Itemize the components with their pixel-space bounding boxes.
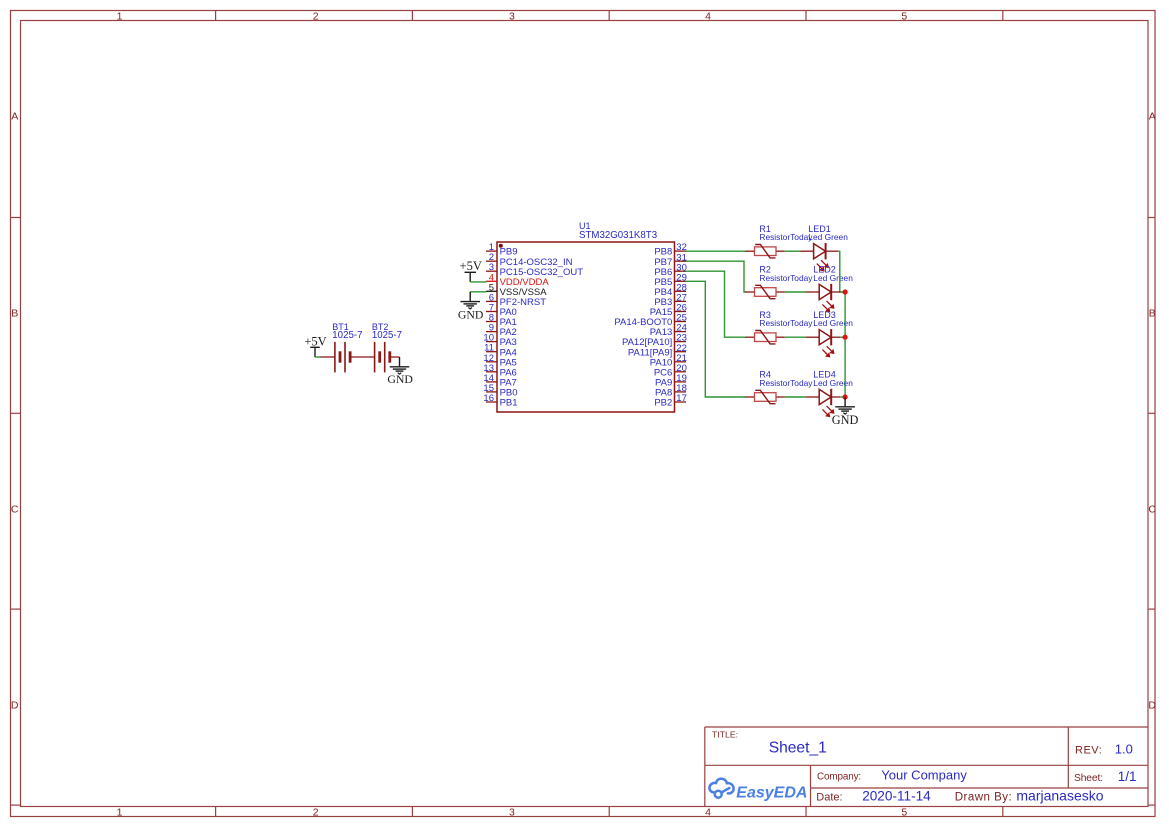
wire LED3 cathode to bus xyxy=(831,336,840,338)
svg-text:1: 1 xyxy=(117,11,123,23)
svg-text:+5V: +5V xyxy=(304,334,326,348)
pin 23 PA12[PA10] xyxy=(622,333,687,349)
pin 20 PC6 xyxy=(654,363,687,379)
pin 28 PB4 xyxy=(654,282,687,298)
wire PB6 to R3 xyxy=(686,271,746,337)
pin 10 PA3 xyxy=(483,333,516,349)
svg-text:B: B xyxy=(11,307,18,319)
pin 8 PA1 xyxy=(486,313,517,329)
svg-text:4: 4 xyxy=(705,807,711,819)
wire BT2 to ground xyxy=(390,356,400,358)
svg-text:D: D xyxy=(1148,699,1156,711)
svg-text:D: D xyxy=(11,699,19,711)
LED4 xyxy=(785,370,854,418)
power flag +5V at battery xyxy=(310,347,320,357)
svg-text:3: 3 xyxy=(509,11,515,23)
title block xyxy=(705,727,1148,807)
svg-text:1/1: 1/1 xyxy=(1118,769,1137,784)
svg-text:GND: GND xyxy=(458,307,484,321)
pin 30 PB6 xyxy=(654,262,687,278)
svg-text:4: 4 xyxy=(705,11,711,23)
pin 18 PA8 xyxy=(655,383,687,399)
svg-text:Sheet_1: Sheet_1 xyxy=(769,740,827,757)
pin 6 PF2-NRST xyxy=(486,292,546,308)
svg-text:GND: GND xyxy=(832,413,859,427)
resistor R3 xyxy=(745,310,813,344)
svg-text:GND: GND xyxy=(387,372,413,386)
svg-text:1: 1 xyxy=(117,807,123,819)
svg-text:5: 5 xyxy=(901,11,907,23)
pin 29 PB5 xyxy=(654,272,687,288)
svg-text:+5V: +5V xyxy=(460,259,482,273)
wire pin4 to +5V xyxy=(470,281,486,283)
svg-text:Led Green: Led Green xyxy=(813,378,853,388)
pin 24 PA13 xyxy=(650,323,687,339)
svg-text:Drawn By:: Drawn By: xyxy=(955,792,1013,804)
pin 3 PC15-OSC32_OUT xyxy=(486,262,583,278)
LED3 xyxy=(785,310,854,358)
wire PB8 to R1 xyxy=(686,250,746,252)
wire PB5 to R4 xyxy=(686,281,746,397)
svg-text:C: C xyxy=(1148,504,1156,516)
pin 4 VDD/VDDA xyxy=(486,272,549,288)
pin 14 PA7 xyxy=(483,373,516,389)
svg-text:5: 5 xyxy=(901,807,907,819)
pin 7 PA0 xyxy=(486,303,517,319)
wire PB7 to R2 xyxy=(686,261,746,292)
svg-text:17: 17 xyxy=(676,393,687,404)
ground at battery xyxy=(390,357,410,374)
svg-text:2: 2 xyxy=(313,11,319,23)
pin 21 PA10 xyxy=(650,353,687,369)
pin 32 PB8 xyxy=(654,242,687,258)
svg-text:ResistorToday: ResistorToday xyxy=(759,232,813,242)
ground at LED4 xyxy=(835,397,855,414)
junction node at LED3 cathode xyxy=(843,335,848,340)
svg-text:1025-7: 1025-7 xyxy=(332,330,362,341)
power flag +5V at chip pin 4 xyxy=(465,272,477,282)
svg-text:ResistorToday: ResistorToday xyxy=(759,273,813,283)
svg-text:ResistorToday: ResistorToday xyxy=(759,318,813,328)
svg-text:1.0: 1.0 xyxy=(1115,741,1133,756)
svg-text:1025-7: 1025-7 xyxy=(372,330,402,341)
svg-text:A: A xyxy=(1149,110,1156,122)
svg-text:Sheet:: Sheet: xyxy=(1074,773,1103,784)
op chip U1 STM32G031K8T3 xyxy=(497,242,675,412)
wire LED4 cathode to bus xyxy=(831,396,840,398)
svg-text:Led Green: Led Green xyxy=(813,318,853,328)
pin 12 PA5 xyxy=(483,353,516,369)
resistor R4 xyxy=(745,370,813,404)
LED2 xyxy=(785,265,854,313)
battery BT1 xyxy=(335,342,350,373)
pin 17 PB2 xyxy=(654,393,687,409)
wire LED1 cathode to bus xyxy=(826,250,839,252)
EasyEDA logo xyxy=(709,779,733,798)
pin 19 PA9 xyxy=(655,373,687,389)
svg-text:ResistorToday: ResistorToday xyxy=(759,378,813,388)
svg-text:TITLE:: TITLE: xyxy=(712,730,738,740)
svg-text:Led Green: Led Green xyxy=(808,232,848,242)
pin 5 VSS/VSSA xyxy=(486,282,547,298)
svg-text:REV:: REV: xyxy=(1075,744,1102,756)
svg-text:Date:: Date: xyxy=(816,792,842,804)
wire LED2 cathode to bus xyxy=(831,291,840,293)
pin 27 PB3 xyxy=(654,293,687,309)
pin 9 PA2 xyxy=(486,323,517,339)
pin 22 PA11[PA9] xyxy=(628,343,687,359)
svg-text:16: 16 xyxy=(483,393,494,404)
svg-text:Led Green: Led Green xyxy=(813,273,853,283)
svg-text:PB2: PB2 xyxy=(654,398,672,409)
pin 16 PB1 xyxy=(483,393,517,409)
pin 26 PA15 xyxy=(650,303,687,319)
svg-text:2: 2 xyxy=(313,807,319,819)
pin 2 PC14-OSC32_IN xyxy=(486,252,573,268)
svg-text:A: A xyxy=(11,110,18,122)
pin 31 PB7 xyxy=(654,252,687,268)
svg-text:2020-11-14: 2020-11-14 xyxy=(862,789,931,804)
resistor R2 xyxy=(745,265,813,299)
title block text xyxy=(712,730,1103,804)
resistor R1 xyxy=(745,224,813,258)
LED1 xyxy=(785,224,849,272)
svg-text:3: 3 xyxy=(509,807,515,819)
wire +5V to BT1 xyxy=(315,356,321,358)
junction node at LED4 cathode xyxy=(843,394,848,399)
svg-text:STM32G031K8T3: STM32G031K8T3 xyxy=(579,230,657,241)
pin 1 PB9 xyxy=(486,242,518,258)
svg-text:Company:: Company: xyxy=(817,772,861,783)
junction node at LED2 cathode xyxy=(843,289,848,294)
svg-text:Your Company: Your Company xyxy=(881,768,967,783)
ground at chip pin 5 xyxy=(460,292,480,309)
svg-text:EasyEDA: EasyEDA xyxy=(736,785,807,802)
pin 15 PB0 xyxy=(483,383,517,399)
svg-text:B: B xyxy=(1149,307,1156,319)
svg-text:PB1: PB1 xyxy=(500,398,518,409)
wire pin5 to ground xyxy=(470,291,486,293)
pin 25 PA14-BOOT0 xyxy=(614,313,686,329)
pin 11 PA4 xyxy=(484,343,517,359)
bus vertical wire xyxy=(844,292,846,397)
battery BT2 xyxy=(375,342,390,373)
svg-text:marjanasesko: marjanasesko xyxy=(1016,788,1103,804)
pin 13 PA6 xyxy=(483,363,516,379)
wire BT1 to BT2 xyxy=(350,356,375,358)
svg-text:C: C xyxy=(11,504,19,516)
